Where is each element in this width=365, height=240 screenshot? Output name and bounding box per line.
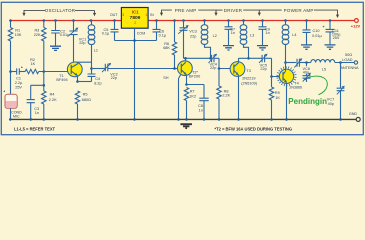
ground symbol for C9 <box>257 46 268 50</box>
svg-text:2: 2 <box>134 21 136 25</box>
svg-text:1K: 1K <box>275 96 280 100</box>
node rail/L1 <box>90 19 93 22</box>
svg-text:0.1µ: 0.1µ <box>159 33 167 37</box>
capacitor C3 1n <box>27 100 35 103</box>
trimmer VC2 22p <box>105 64 108 71</box>
svg-text:GND: GND <box>349 112 358 116</box>
svg-text:2.2K: 2.2K <box>49 98 57 102</box>
wire R3 to base node <box>43 41 45 72</box>
section label OSCILLATOR with span arrows <box>24 10 95 14</box>
node rail/L4 <box>284 19 287 22</box>
svg-text:POWER AMP: POWER AMP <box>284 8 314 13</box>
ground symbol for C10 <box>301 45 312 49</box>
svg-text:ANTENNA: ANTENNA <box>340 66 359 70</box>
inductor L3 <box>243 21 245 26</box>
node T2 collector/bus <box>184 57 187 60</box>
svg-text:R7: R7 <box>190 89 195 93</box>
svg-text:+: + <box>3 89 5 93</box>
node L2/bus <box>209 57 212 60</box>
ground symbol for C2 <box>50 46 61 50</box>
svg-text:L1: L1 <box>94 49 98 53</box>
wire VC6 to L5 <box>299 62 310 64</box>
T3 emitter wire to ground <box>238 75 240 119</box>
svg-text:BF200: BF200 <box>189 75 200 79</box>
wire R4 to ground <box>43 104 45 119</box>
resistor R8 2.2K <box>218 69 220 87</box>
svg-text:PRE AMP: PRE AMP <box>175 8 197 13</box>
output wire from collector node <box>286 62 296 64</box>
wire L2 jog to tank bus <box>205 44 211 58</box>
oscillator output bus to T2 <box>92 68 106 70</box>
resistor R6 68K <box>174 21 176 43</box>
node rail/VC3 <box>182 19 185 22</box>
node rail/R3 <box>43 19 46 22</box>
resistor R9 1K <box>271 77 273 88</box>
wire L5 to antenna terminal <box>335 62 355 64</box>
node rail/C9 <box>261 19 264 22</box>
capacitor C11 100u 25V (electrolytic) <box>329 21 331 30</box>
node rail/VC1 <box>72 19 75 22</box>
svg-text:OSCILLATOR: OSCILLATOR <box>45 8 76 13</box>
svg-text:1n: 1n <box>35 111 39 115</box>
node mic/C1 junction <box>9 70 12 73</box>
svg-text:22p: 22p <box>79 41 85 45</box>
node rail/C6 <box>155 19 158 22</box>
svg-text:R9: R9 <box>275 91 280 95</box>
node emitter/C8 <box>185 83 188 86</box>
wire L4 to collector node <box>285 44 287 62</box>
resistor R7 1K2 <box>184 88 188 101</box>
svg-text:SH: SH <box>163 76 169 80</box>
transistor T1 BF494 <box>67 62 82 77</box>
svg-text:LOAD: LOAD <box>342 58 353 62</box>
node VC7 tap <box>339 61 342 64</box>
+V power rail (red, top) <box>11 20 355 22</box>
svg-text:40p: 40p <box>328 102 334 106</box>
capacitor C4 8.2p <box>88 74 96 76</box>
svg-text:1K2: 1K2 <box>189 94 196 98</box>
wire R6 to base bus <box>174 55 176 69</box>
trimmer VC6 40p <box>297 59 299 67</box>
mic lead to ground rail <box>10 108 12 119</box>
svg-text:22p: 22p <box>190 34 196 38</box>
node R8/base <box>218 67 221 70</box>
svg-text:R5: R5 <box>83 93 88 97</box>
wire tank node to collector <box>74 61 92 63</box>
svg-text:DRIVER: DRIVER <box>224 8 243 13</box>
svg-text:T3: T3 <box>246 69 250 73</box>
border frame <box>1 2 363 134</box>
T3 collector wire <box>238 58 240 62</box>
wire C3 stub <box>31 85 44 99</box>
GND terminal circle <box>356 117 360 121</box>
T4 collector wire <box>285 63 287 72</box>
node rail/C11 <box>329 19 332 22</box>
node tie/COM <box>133 39 136 42</box>
svg-text:8.2p: 8.2p <box>94 81 101 85</box>
svg-text:T2*: T2* <box>192 70 198 74</box>
transistor T3 2N2219 <box>230 62 245 77</box>
svg-text:BF494: BF494 <box>56 78 67 82</box>
T2 tank bus <box>184 57 212 59</box>
svg-text:L1-L5 = REFER TEXT: L1-L5 = REFER TEXT <box>14 126 56 131</box>
resistor R1 10K <box>8 28 12 41</box>
wire rail to R3 <box>43 21 45 28</box>
node R3/R4/base junction <box>43 70 46 73</box>
T3 tank bus <box>239 57 263 59</box>
transistor T4 2N3866 with heatsink star <box>277 66 297 86</box>
node rail/C10 <box>305 19 308 22</box>
svg-text:+: + <box>323 25 325 29</box>
svg-text:680Ω: 680Ω <box>82 98 91 102</box>
+12V terminal circle <box>355 19 359 23</box>
wire <box>19 71 25 73</box>
svg-text:OUT: OUT <box>110 13 118 17</box>
section label POWER AMP with supply arrow <box>259 10 337 15</box>
transistor T2 BF200 <box>178 61 193 76</box>
T2 emitter wire <box>186 75 188 85</box>
svg-text:Pendingin: Pendingin <box>288 97 327 106</box>
node L4/VC6/collector <box>284 61 287 64</box>
svg-text:3: 3 <box>122 13 124 17</box>
svg-text:1n: 1n <box>199 108 203 112</box>
resistor R5 680 <box>75 91 79 104</box>
inductor L1 <box>91 21 93 26</box>
svg-text:10K: 10K <box>15 33 22 37</box>
svg-text:+: + <box>21 66 23 70</box>
svg-text:0.1µ: 0.1µ <box>102 32 110 36</box>
node rail/L3 <box>242 19 245 22</box>
svg-text:R1: R1 <box>15 28 20 32</box>
node rail/R6 <box>173 19 176 22</box>
T4 emitter wire to ground <box>286 82 288 119</box>
trimmer VC4 22p <box>212 55 214 62</box>
svg-text:2N2219: 2N2219 <box>242 77 255 81</box>
node R6/base <box>173 67 176 70</box>
capacitor C7 1n <box>228 21 230 27</box>
node emitter/C4 <box>76 80 79 83</box>
capacitor C5 0.1u <box>114 21 116 30</box>
svg-text:2.2µ: 2.2µ <box>15 81 23 85</box>
wire VC5 to T4 base <box>272 58 280 76</box>
T2 shield lead SH <box>179 74 181 119</box>
node rail/C7 <box>227 19 230 22</box>
svg-text:0.01µ: 0.01µ <box>312 34 322 38</box>
svg-text:C10: C10 <box>313 29 320 33</box>
svg-text:1: 1 <box>145 13 147 17</box>
capacitor C6 0.1u <box>156 21 158 30</box>
section label DRIVER with span arrows <box>216 10 259 14</box>
wire R1 to mic node <box>10 41 12 94</box>
wire L3 jog to tank bus <box>244 44 249 58</box>
ground rail (bottom) <box>11 118 357 120</box>
svg-text:L3: L3 <box>250 34 254 38</box>
svg-text:25V: 25V <box>15 85 22 89</box>
svg-text:40p: 40p <box>303 70 309 74</box>
svg-text:1K: 1K <box>31 62 36 66</box>
capacitor C2 0.01u <box>55 21 57 31</box>
node VC8 tap <box>305 61 308 64</box>
svg-text:1n: 1n <box>231 31 235 35</box>
wire R2 to T1 base <box>39 71 71 73</box>
node tank/VC2/C4 <box>90 67 93 70</box>
svg-text:R4: R4 <box>50 93 55 97</box>
node L3/bus <box>247 57 250 60</box>
wire left column <box>10 21 12 28</box>
svg-text:+12V: +12V <box>351 24 361 29</box>
capacitor C1 2.2u 25V <box>17 68 20 74</box>
svg-text:IN: IN <box>150 13 154 17</box>
trimmer VC3 22p <box>183 21 185 28</box>
trimmer VC8 40p (shunt) <box>306 63 308 76</box>
inductor L5 <box>311 60 335 63</box>
svg-text:VC7: VC7 <box>327 97 334 101</box>
T1 emitter wire <box>77 76 79 82</box>
svg-text:L4: L4 <box>292 33 296 37</box>
svg-text:1n: 1n <box>266 31 270 35</box>
decoupling tie wire C5/COM/C6 <box>115 40 157 42</box>
trimmer VC7 40p (shunt to ground) <box>340 63 342 89</box>
capacitor C10 0.01u <box>306 21 308 30</box>
COM wire from pin 2 to ground rail <box>134 28 136 119</box>
wire VC4 to T3 base <box>219 58 230 68</box>
capacitor C9 1n <box>262 21 264 27</box>
svg-text:25V: 25V <box>333 36 340 40</box>
IC1 7809 voltage regulator <box>121 8 148 29</box>
green pointer arc to T4 <box>305 76 327 95</box>
condenser microphone <box>3 89 17 108</box>
T2 collector wire <box>185 58 187 61</box>
wire base node down <box>43 72 45 92</box>
chassis ground symbol under rail <box>180 124 192 128</box>
svg-text:L2: L2 <box>213 34 217 38</box>
svg-text:22p: 22p <box>210 66 216 70</box>
svg-text:22p: 22p <box>111 76 117 80</box>
svg-text:L5: L5 <box>322 68 326 72</box>
svg-text:C1: C1 <box>16 76 21 80</box>
inductor L4 <box>285 21 287 26</box>
ground symbol for C11 <box>325 45 336 49</box>
top rail start dot <box>9 19 12 22</box>
wire emitter to C4 <box>78 81 92 83</box>
node rail/C5 <box>113 19 116 22</box>
ground symbol for C7 <box>223 46 234 50</box>
node R9/base <box>270 75 273 78</box>
section label PRE AMP with span arrows <box>162 10 217 14</box>
capacitor C8 1n <box>187 85 205 99</box>
resistor R3 22K <box>42 28 46 41</box>
node rail/L2 <box>203 19 206 22</box>
bottom rail junction dots <box>9 118 342 121</box>
svg-text:*T2 = BFW 16A USED DURING TEST: *T2 = BFW 16A USED DURING TESTING <box>215 126 293 131</box>
node C3 stub junction <box>43 84 46 87</box>
wire base branch <box>11 71 17 73</box>
svg-text:MIC: MIC <box>13 115 20 119</box>
svg-text:50Ω: 50Ω <box>345 53 352 57</box>
resistor R2 1K <box>25 69 38 73</box>
svg-text:VC3: VC3 <box>189 30 196 34</box>
node rail/C2 <box>54 19 57 22</box>
trimmer VC5 22p <box>262 55 265 62</box>
antenna terminal circle <box>354 61 357 64</box>
svg-text:2.2K: 2.2K <box>222 93 230 97</box>
svg-text:IC1: IC1 <box>132 10 139 15</box>
trimmer VC1 22p <box>73 21 75 32</box>
inductor L2 <box>204 21 206 26</box>
svg-text:R3: R3 <box>34 28 39 32</box>
T1 collector wire <box>77 62 79 63</box>
svg-text:22p: 22p <box>260 67 266 71</box>
svg-text:68K: 68K <box>163 46 170 50</box>
resistor R4 2.2K <box>42 91 46 104</box>
svg-text:(2N5109): (2N5109) <box>241 82 258 86</box>
svg-text:COM: COM <box>137 32 145 36</box>
svg-text:22K: 22K <box>34 33 41 37</box>
svg-text:C4: C4 <box>95 77 100 81</box>
svg-text:2N3866: 2N3866 <box>289 86 302 90</box>
